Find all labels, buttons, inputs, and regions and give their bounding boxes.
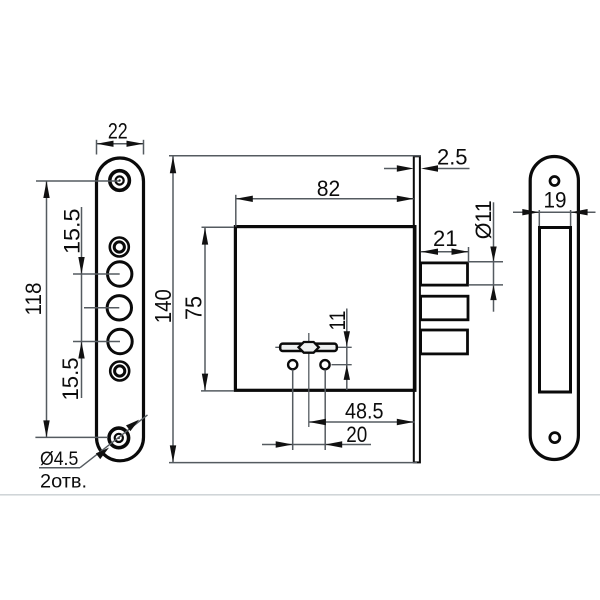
dim 21 extension line	[468, 247, 470, 263]
leader shelf line	[39, 467, 80, 469]
dim 11dia arrow down	[490, 247, 496, 262]
dim 19 extension line left	[538, 210, 540, 226]
fixing screw hole left	[288, 360, 297, 369]
dim 118 arrow bottom	[43, 420, 49, 437]
large hole 1	[108, 262, 132, 286]
dim 19 arrow right	[571, 209, 588, 215]
dim 48.5 arrow left	[309, 419, 326, 425]
keyhole vertical center line	[308, 333, 310, 427]
svg-text:2отв.: 2отв.	[40, 472, 87, 493]
dim 22 arrow right	[127, 141, 144, 147]
dim 21 arrow right	[452, 249, 469, 255]
dim 118 top reference line	[36, 180, 120, 182]
screw right extension line	[324, 370, 326, 451]
svg-text:19: 19	[544, 188, 567, 213]
dim 118 bottom reference line	[35, 436, 108, 438]
lock body rectangle (side view)	[235, 227, 415, 391]
hole1 center line	[73, 273, 120, 275]
dim 82 arrow left	[236, 196, 253, 202]
dim 2.5 arrow left	[397, 165, 414, 171]
dim 140 arrow bottom	[170, 445, 176, 462]
dim 21 line	[421, 251, 469, 253]
dim 15.5 shared line	[81, 207, 83, 398]
strike plate bottom hole	[550, 433, 560, 443]
svg-text:22: 22	[108, 119, 128, 144]
svg-text:118: 118	[21, 283, 46, 316]
dim 75 bottom extension line	[201, 390, 234, 392]
svg-text:140: 140	[150, 289, 176, 323]
svg-text:75: 75	[181, 296, 207, 320]
dim 48.5 arrow right	[397, 419, 414, 425]
leader arrow on hole edge	[96, 448, 109, 460]
svg-text:11: 11	[325, 311, 350, 331]
deadbolt 2 (middle)	[421, 296, 468, 320]
deadbolt 3 (bottom)	[421, 330, 468, 354]
dim 11 arrow down	[344, 331, 350, 346]
dim 20 line	[262, 444, 371, 446]
deadbolt 1 (top)	[421, 263, 468, 285]
dim 82 line	[236, 198, 414, 200]
dim 48.5 line	[309, 421, 415, 423]
dim 11 line	[346, 309, 348, 391]
dim 140 line	[172, 156, 174, 463]
strike plate outline (stadium shape)	[530, 157, 578, 460]
left faceplate outline (front view, stadium shape)	[97, 158, 144, 461]
large hole 2	[107, 296, 131, 320]
large hole 3	[108, 329, 132, 353]
dim 82 extension line	[235, 195, 237, 227]
strike plate top hole	[550, 177, 559, 186]
dim 75 line	[204, 227, 206, 391]
dim 75 top extension line	[202, 226, 235, 228]
dim 20 arrow left	[276, 441, 293, 447]
svg-text:82: 82	[317, 176, 341, 201]
dim 140 bottom extension line	[169, 462, 417, 464]
faceplate edge view (thin vertical plate)	[414, 156, 420, 462]
svg-text:Ø11: Ø11	[471, 200, 496, 239]
dim 11dia bottom extension line	[469, 284, 504, 286]
dim 19 arrow left	[522, 209, 539, 215]
bottom screw hole (countersunk)	[109, 428, 129, 448]
dim 2.5 tail left	[384, 168, 397, 170]
leader line	[80, 415, 148, 468]
screw holes center line	[332, 364, 352, 366]
svg-text:20: 20	[346, 422, 367, 447]
dim 22 arrow left	[97, 141, 114, 147]
screw left extension line	[292, 370, 294, 451]
dim 75 arrow top	[202, 228, 208, 245]
svg-text:48.5: 48.5	[345, 398, 384, 423]
dim 22 extension line right	[143, 140, 145, 155]
dim 140 arrow top	[170, 156, 176, 173]
fixing screw hole right	[320, 360, 329, 369]
dim 22 line	[97, 143, 144, 145]
dim 21 arrow left	[421, 249, 438, 255]
dim 75 arrow bottom	[202, 374, 208, 391]
dim 118 line	[46, 181, 48, 437]
dim 2.5 tail right	[438, 168, 470, 170]
leader arrow on plate edge	[126, 420, 139, 432]
dim 22 extension line left	[96, 140, 98, 155]
small hole lower	[110, 362, 129, 381]
svg-text:15.5: 15.5	[58, 358, 83, 401]
dim 19 line	[513, 211, 596, 213]
dim 20 arrow right	[325, 441, 342, 447]
dim 19 extension line right	[570, 210, 572, 226]
keyhole center spindle bulge	[299, 342, 319, 353]
hole3 center line	[73, 341, 120, 343]
small hole upper	[110, 238, 129, 257]
dim 2.5 arrow right	[421, 165, 438, 171]
dim 15.5 upper arrow	[78, 257, 84, 274]
dim 82 arrow right	[397, 196, 414, 202]
dim 15.5 lower arrow	[78, 342, 84, 359]
svg-text:2.5: 2.5	[437, 144, 468, 169]
keyhole bar (key way slot)	[280, 344, 337, 351]
dim 11dia line	[493, 202, 495, 311]
svg-text:15.5: 15.5	[60, 209, 85, 255]
hole2 center line	[84, 307, 119, 309]
dim 11dia arrow up	[490, 285, 496, 300]
strike plate rectangular cutout	[540, 228, 571, 393]
top screw hole (countersunk)	[110, 171, 130, 191]
dim 140 top extension line	[169, 155, 421, 157]
dim 118 arrow top	[43, 181, 49, 198]
svg-text:Ø4.5: Ø4.5	[40, 449, 78, 470]
keyhole horizontal center line	[275, 346, 351, 348]
dim 11 arrow up	[344, 365, 350, 380]
faint page rule line	[0, 494, 600, 496]
dim 11dia top extension line	[469, 261, 504, 263]
svg-text:21: 21	[433, 226, 458, 251]
